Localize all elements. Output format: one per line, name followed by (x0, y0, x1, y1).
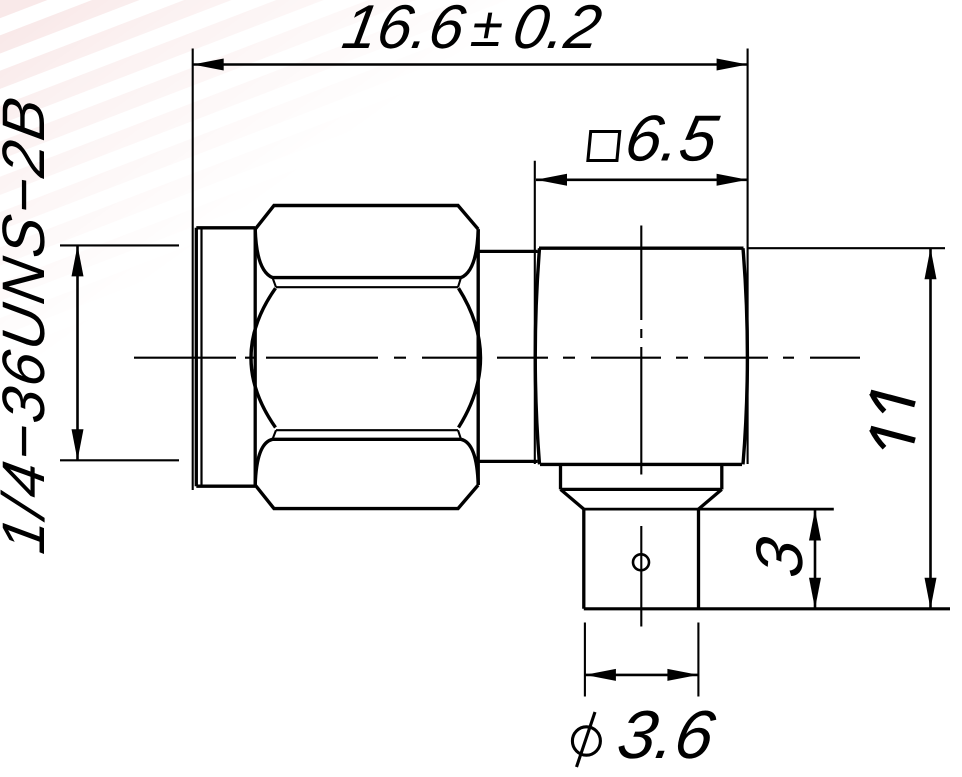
svg-text:1/4−36UNS−2B: 1/4−36UNS−2B (0, 90, 57, 558)
dim text 16.6±0.2 (338, 0, 471, 62)
dim text 3 (743, 532, 816, 582)
flange (196, 228, 255, 486)
bottom line + ext for dims 3 and 11 (584, 607, 950, 610)
dim text 11 (871, 393, 916, 448)
thread label 1/4-36UNS-2B (0, 90, 57, 558)
hex nut outline (255, 206, 478, 509)
collar (561, 464, 722, 509)
hex middle band arcs (251, 288, 276, 427)
centerline vertical (640, 226, 642, 627)
hex top band (255, 229, 478, 277)
centerline horizontal (134, 357, 860, 359)
hex bottom band (276, 429, 458, 431)
tube top line + ext for dim 3 (584, 508, 834, 511)
dim 6.5 arrows (536, 174, 567, 186)
dim 3.6 arrows (585, 669, 616, 681)
diameter symbol phi (572, 712, 600, 767)
dim 3 arrows (809, 510, 821, 541)
extension lines (60, 49, 945, 697)
svg-text:6.5: 6.5 (620, 102, 724, 174)
arrowheads (72, 59, 937, 681)
watermark stripes (0, 0, 962, 600)
svg-text:0.2: 0.2 (508, 0, 606, 62)
neck between hex and barrel (478, 251, 537, 461)
svg-text:3.6: 3.6 (612, 696, 721, 772)
square symbol of 6.5 (588, 132, 620, 161)
flange chamfer line (200, 228, 202, 486)
dim text 6.5 (620, 102, 724, 174)
dimension lines (78, 65, 931, 675)
left dim arrows (72, 245, 84, 276)
barrel (square body) (535, 248, 747, 464)
hole (633, 554, 649, 570)
dim 16.6 arrows (193, 59, 224, 71)
dim 11 arrows (925, 248, 937, 279)
svg-text:16.6: 16.6 (338, 0, 471, 62)
tube (584, 509, 699, 609)
dim text 3.6 (612, 696, 721, 772)
